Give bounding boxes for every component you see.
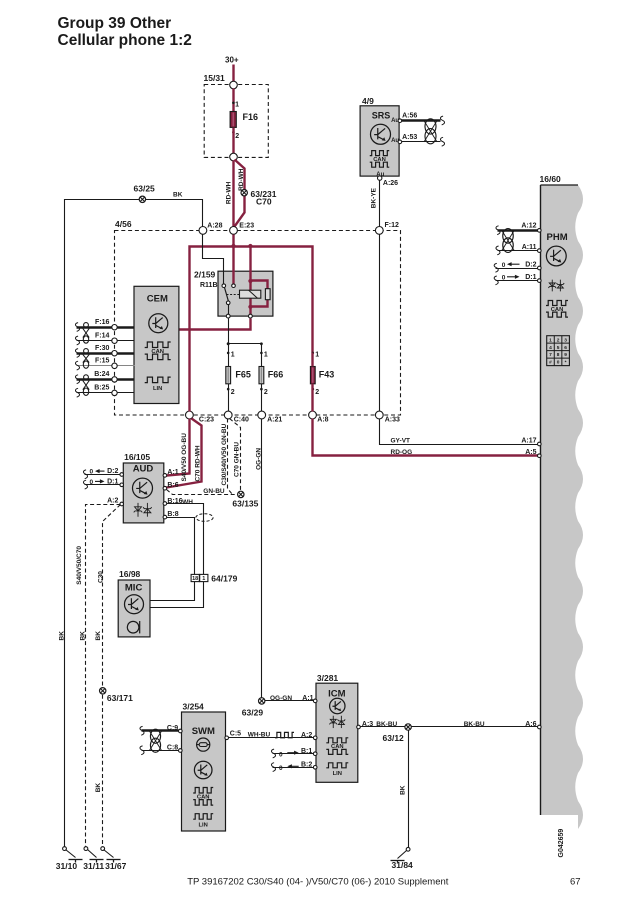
svg-text:A:33: A:33 — [385, 416, 400, 423]
pin C:9 of SWM — [179, 729, 183, 733]
svg-text:D:1: D:1 — [525, 274, 536, 281]
svg-text:A:17: A:17 — [521, 438, 536, 445]
svg-text:C70 GN-BU: C70 GN-BU — [233, 442, 240, 477]
PHM keypad — [547, 336, 570, 366]
wire WH-BU — [229, 737, 315, 739]
splice 63/171 — [100, 688, 106, 694]
pin 2 of F16 — [232, 131, 235, 134]
wire RD-WH right branch — [235, 160, 245, 227]
pin B:1 of ICM — [313, 752, 317, 756]
svg-text:1: 1 — [235, 101, 239, 108]
pin A:6 of PHM — [538, 725, 542, 729]
svg-text:BK: BK — [399, 785, 406, 795]
svg-text:Cellular phone 1:2: Cellular phone 1:2 — [58, 32, 192, 49]
module MIC box — [118, 580, 150, 637]
svg-text:A:11: A:11 — [522, 244, 537, 251]
relay dashed link — [227, 294, 240, 296]
wire relay to fuse junction — [228, 319, 230, 344]
svg-text:A:56: A:56 — [402, 113, 417, 120]
wire A:53 — [402, 141, 441, 143]
svg-text:1: 1 — [231, 352, 235, 359]
svg-text:A:21: A:21 — [267, 416, 282, 423]
wire RD-WH left branch — [232, 161, 234, 227]
wire BK horizontal — [65, 200, 203, 847]
wire D:1 of PHM — [496, 280, 538, 282]
wire BK-BU — [361, 726, 538, 728]
svg-text:BK: BK — [95, 783, 102, 793]
svg-text:0: 0 — [502, 275, 506, 282]
pin 1 of F43 — [312, 352, 315, 355]
wire C:8 — [142, 750, 179, 752]
module AUD box — [123, 463, 164, 523]
node bottom of 15/31 — [230, 153, 238, 161]
wire maroon bus — [190, 247, 313, 412]
wire B:2 — [273, 767, 314, 769]
wire to F65 — [228, 344, 230, 367]
MIC microphone symbol — [127, 621, 139, 633]
svg-text:63/12: 63/12 — [383, 733, 405, 743]
node A:21 — [258, 411, 266, 419]
AUD D:1 wire — [85, 484, 121, 486]
fuse F65 — [226, 367, 231, 384]
wire A:2 to 31/11 — [86, 505, 121, 847]
svg-text:A:2: A:2 — [107, 498, 118, 505]
svg-text:2/159: 2/159 — [194, 270, 216, 280]
svg-text:9: 9 — [564, 352, 567, 358]
wire relay coil to CEM — [179, 319, 251, 330]
svg-text:BK-BU: BK-BU — [376, 721, 397, 728]
CEM LIN symbol — [145, 377, 171, 383]
svg-text:RD-WH: RD-WH — [225, 181, 232, 204]
twisted pair SWM — [149, 731, 161, 751]
svg-text:0: 0 — [557, 360, 560, 366]
svg-text:SRS: SRS — [372, 111, 391, 121]
ground 31/84 — [406, 847, 410, 851]
ICM CAN symbol — [326, 738, 348, 743]
relay switch arm — [225, 288, 229, 302]
relay maroon through-wire — [249, 272, 251, 317]
pin D:1 of PHM — [538, 279, 542, 283]
svg-text:B:6: B:6 — [167, 482, 178, 489]
svg-text:C:40: C:40 — [234, 416, 249, 423]
pin A:1 of AUD — [163, 474, 167, 478]
twisted pair SRS — [424, 121, 437, 142]
svg-text:2: 2 — [264, 389, 268, 396]
svg-text:ICM: ICM — [328, 688, 346, 699]
svg-text:LIN: LIN — [333, 771, 342, 777]
svg-text:0: 0 — [90, 469, 94, 476]
splice 63/12 — [405, 724, 411, 730]
pin A:53 of SRS — [398, 140, 402, 144]
relay coil resistor — [265, 289, 270, 300]
twisted pair PHM — [502, 230, 515, 250]
relay pin — [232, 284, 236, 288]
wire A:2 to 31/67 — [103, 505, 121, 847]
wire E:23 to relay — [232, 235, 234, 284]
svg-text:A:28: A:28 — [207, 222, 222, 229]
svg-text:C70: C70 — [256, 196, 272, 206]
svg-text:F:12: F:12 — [385, 222, 400, 229]
svg-text:2: 2 — [557, 337, 560, 343]
CEM CAN symbol — [145, 342, 171, 348]
pin B:8 of AUD — [163, 515, 167, 519]
pin A:2 of AUD — [120, 502, 124, 506]
ICM diode symbol — [329, 716, 345, 728]
svg-text:0: 0 — [502, 262, 506, 269]
ground 31/10 — [63, 847, 67, 851]
PHM diode symbol — [548, 280, 564, 292]
pin 2 of F66 — [260, 388, 263, 391]
pin 1 of F16 — [232, 102, 235, 105]
svg-text:TP 39167202 C30/S40 (04- )/V50: TP 39167202 C30/S40 (04- )/V50/C70 (06-)… — [187, 877, 449, 888]
svg-text:BK: BK — [80, 631, 87, 641]
ground 31/67 — [101, 847, 105, 851]
svg-text:F43: F43 — [319, 370, 335, 380]
wire D:2 of PHM — [496, 268, 538, 270]
svg-text:*: * — [565, 360, 567, 366]
PHM transistor symbol — [546, 246, 566, 266]
CEM transistor symbol — [149, 314, 168, 333]
svg-text:C70 RD-WH: C70 RD-WH — [194, 445, 201, 481]
svg-text:SWM: SWM — [192, 726, 215, 737]
svg-text:C:23: C:23 — [199, 416, 214, 423]
svg-text:7: 7 — [549, 352, 552, 358]
svg-text:#: # — [549, 360, 552, 366]
pin B:6 of AUD — [163, 486, 167, 490]
svg-text:B:25: B:25 — [94, 385, 109, 392]
node top of 15/31 — [230, 81, 238, 89]
module ICM box — [316, 683, 358, 782]
node E:23 — [230, 227, 238, 235]
pin 1 of F66 — [260, 352, 263, 355]
pin A:2 of ICM — [313, 736, 317, 740]
svg-text:GN-BU: GN-BU — [203, 488, 225, 495]
svg-text:S40/V50 OG-BU: S40/V50 OG-BU — [181, 433, 188, 482]
svg-text:PHM: PHM — [547, 232, 568, 243]
pin D:2 of AUD — [120, 473, 124, 477]
pin A:11 of PHM — [538, 249, 542, 253]
pin 2 of F43 — [312, 388, 315, 391]
svg-text:A:53: A:53 — [402, 134, 417, 141]
pin A:12 of PHM — [538, 229, 542, 233]
svg-text:B:16: B:16 — [167, 498, 182, 505]
twisted pair B:24/B:25 — [84, 375, 89, 380]
svg-text:3/281: 3/281 — [317, 673, 339, 683]
pin C:8 of SWM — [179, 749, 183, 753]
wire BK to 31/84 — [408, 731, 410, 848]
relay pin bottom switch — [226, 314, 230, 318]
svg-text:3: 3 — [564, 337, 567, 343]
relay switch out — [228, 305, 230, 315]
svg-text:RD-OG: RD-OG — [391, 449, 413, 456]
svg-text:16/60: 16/60 — [540, 174, 562, 184]
svg-text:4/9: 4/9 — [362, 96, 374, 106]
svg-text:31/67: 31/67 — [105, 861, 127, 871]
svg-text:18: 18 — [192, 576, 198, 582]
svg-text:2: 2 — [315, 389, 319, 396]
svg-text:CEM: CEM — [147, 294, 168, 305]
wire to F66 — [261, 353, 263, 367]
pin A:1 of ICM — [313, 699, 317, 703]
pin A:26 of SRS — [378, 176, 382, 180]
svg-text:R11B: R11B — [200, 282, 218, 289]
svg-text:16/98: 16/98 — [119, 569, 141, 579]
svg-text:A:8: A:8 — [317, 416, 328, 423]
wire GN-BU left branch — [228, 419, 233, 495]
svg-text:C30: C30 — [97, 571, 104, 583]
svg-text:67: 67 — [570, 877, 581, 888]
svg-text:C:5: C:5 — [230, 731, 241, 738]
SWM CAN symbol — [193, 788, 213, 794]
SRS CAN symbol — [370, 151, 390, 156]
twisted pair F:16/F:14 — [84, 323, 89, 328]
twisted pair F:30/F:15 — [84, 349, 89, 354]
node A:8 — [309, 411, 317, 419]
wire OG-GN — [262, 419, 315, 701]
wire 30+ feed — [232, 65, 234, 82]
pin D:1 of AUD — [120, 483, 124, 487]
ground 31/11 — [84, 847, 88, 851]
wire B:1 — [273, 753, 314, 755]
module SWM box — [182, 712, 226, 831]
svg-text:B:8: B:8 — [167, 511, 178, 518]
svg-text:D:2: D:2 — [525, 261, 536, 268]
wire A:11 — [498, 250, 538, 252]
wire B:16 — [167, 504, 204, 575]
wire RD-OG — [313, 419, 538, 456]
svg-text:F16: F16 — [243, 112, 259, 122]
svg-text:2: 2 — [231, 389, 235, 396]
pin A:5 of PHM — [538, 454, 542, 458]
shield ellipse — [196, 514, 213, 522]
junction — [260, 342, 263, 345]
svg-text:A:26: A:26 — [383, 180, 398, 187]
svg-text:BK: BK — [95, 631, 102, 641]
svg-text:15/31: 15/31 — [204, 73, 226, 83]
svg-text:LIN: LIN — [153, 386, 162, 392]
svg-text:OG-GN: OG-GN — [270, 695, 292, 702]
wire F43 to A:8 — [311, 384, 313, 412]
svg-text:4/56: 4/56 — [115, 219, 132, 229]
ICM transistor symbol — [330, 698, 345, 713]
svg-text:F65: F65 — [235, 370, 251, 380]
module CEM box — [134, 286, 179, 403]
wire BK-YE — [379, 181, 381, 227]
wire A:28 to relay switch — [203, 235, 224, 284]
fuse F66 — [259, 367, 264, 384]
wire F66 to A:21 — [261, 384, 263, 412]
node C:23 — [186, 411, 194, 419]
pin 1 of F65 — [227, 352, 230, 355]
svg-text:WH-BU: WH-BU — [248, 732, 271, 739]
wire GN-BU from B:6 — [167, 490, 238, 495]
node A:28 — [199, 227, 207, 235]
AUD diode symbol — [134, 503, 152, 517]
relay 2/159 body — [218, 271, 273, 316]
MIC transistor symbol — [125, 595, 144, 614]
AUD transistor symbol — [133, 478, 153, 498]
svg-text:16/105: 16/105 — [124, 452, 150, 462]
svg-text:1: 1 — [264, 352, 268, 359]
SWM steering wheel symbol — [197, 738, 210, 751]
svg-text:A:12: A:12 — [521, 222, 536, 229]
svg-text:BK-YE: BK-YE — [370, 187, 377, 208]
SWM LIN symbol — [193, 814, 213, 820]
fusebox 15/31 — [204, 85, 268, 158]
svg-text:F66: F66 — [268, 370, 284, 380]
svg-text:A:2: A:2 — [301, 732, 312, 739]
svg-text:WH: WH — [182, 499, 193, 506]
relay coil loop — [251, 281, 268, 289]
svg-text:G042659: G042659 — [558, 829, 565, 858]
node C:40 — [224, 411, 232, 419]
svg-text:S40/V50/C70: S40/V50/C70 — [76, 546, 83, 585]
pin A:17 of PHM — [538, 442, 542, 446]
svg-text:31/11: 31/11 — [83, 861, 104, 871]
junction — [248, 244, 252, 248]
svg-text:1: 1 — [315, 352, 319, 359]
module SRS box — [360, 106, 399, 176]
svg-text:63/25: 63/25 — [134, 183, 156, 193]
fuse F43 — [310, 367, 315, 384]
svg-text:3/254: 3/254 — [183, 701, 205, 711]
WH-BU square wave — [275, 732, 294, 737]
AUD D:2 wire — [85, 474, 121, 476]
svg-text:RD-WH: RD-WH — [238, 168, 245, 191]
wire F43 top — [311, 353, 313, 367]
junction — [227, 342, 230, 345]
svg-text:A:1: A:1 — [302, 695, 313, 702]
connector box 4/56 — [115, 231, 401, 416]
wire GN-BU right branch — [230, 419, 241, 491]
svg-text:63/29: 63/29 — [242, 707, 264, 717]
wire C:9 — [142, 729, 179, 731]
svg-text:A:5: A:5 — [525, 449, 536, 456]
wire junction to F66 — [229, 344, 262, 353]
splice 63/231 — [241, 190, 247, 196]
node F:12 — [375, 227, 383, 235]
svg-text:30+: 30+ — [225, 56, 239, 65]
wire B:8 — [167, 518, 195, 575]
svg-text:64/179: 64/179 — [211, 573, 237, 583]
svg-text:31/84: 31/84 — [392, 860, 414, 870]
pin 2 of F65 — [227, 388, 230, 391]
SWM transistor symbol — [194, 761, 212, 779]
splice 63/29 — [259, 698, 265, 704]
svg-text:A:1: A:1 — [167, 469, 178, 476]
svg-text:GY-VT: GY-VT — [391, 438, 411, 445]
svg-text:LIN: LIN — [199, 822, 208, 828]
ICM LIN symbol — [326, 763, 348, 768]
relay pin bottom coil — [249, 314, 253, 318]
svg-text:63/135: 63/135 — [232, 499, 258, 509]
svg-text:4: 4 — [549, 345, 552, 351]
module PHM column — [541, 185, 584, 829]
node A:33 — [375, 411, 383, 419]
wire RD-WH to B:6 — [167, 419, 202, 488]
splice 63/135 — [238, 491, 244, 497]
svg-text:Group 39 Other: Group 39 Other — [58, 15, 172, 32]
svg-text:E:23: E:23 — [239, 222, 254, 229]
svg-text:AUD: AUD — [133, 464, 154, 475]
pin A:56 of SRS — [398, 119, 402, 123]
svg-text:2: 2 — [235, 133, 239, 140]
svg-text:B:24: B:24 — [94, 371, 109, 378]
wire fuse feed — [232, 89, 234, 112]
wire A:12 — [498, 229, 538, 231]
pin B:16 of AUD — [163, 502, 167, 506]
pin C:5 of SWM — [225, 736, 229, 740]
wire bus to relay coil — [249, 247, 251, 272]
svg-text:F:16: F:16 — [95, 319, 110, 326]
wire GY-VT — [380, 419, 538, 445]
wire fuse out — [232, 128, 234, 154]
svg-text:C30/S40/V50 GN-BU: C30/S40/V50 GN-BU — [221, 423, 228, 485]
wire A:56 — [402, 119, 441, 121]
svg-text:1: 1 — [549, 337, 552, 343]
junction — [231, 244, 235, 248]
svg-text:0: 0 — [90, 479, 94, 486]
svg-text:63/171: 63/171 — [107, 693, 133, 703]
pin A:3 of ICM — [357, 725, 361, 729]
pin B:2 of ICM — [313, 766, 317, 770]
relay coil — [240, 290, 261, 298]
svg-text:5: 5 — [557, 345, 560, 351]
wire F65 to C:40 — [228, 384, 230, 412]
SRS transistor symbol — [371, 124, 391, 144]
svg-text:BK: BK — [58, 631, 65, 641]
pin D:2 of PHM — [538, 266, 542, 270]
splice 63/25 — [139, 196, 145, 202]
svg-text:F:14: F:14 — [95, 333, 110, 340]
relay pin — [222, 284, 226, 288]
connector 64/179 — [191, 574, 199, 581]
wire 18 to MIC — [151, 582, 195, 601]
svg-text:MIC: MIC — [125, 583, 143, 594]
svg-text:8: 8 — [557, 352, 560, 358]
fuse F16 — [230, 112, 236, 128]
relay pin — [226, 301, 230, 305]
wire F:12 to A:33 — [379, 235, 381, 412]
svg-text:31/10: 31/10 — [56, 861, 78, 871]
svg-text:0: 0 — [279, 765, 283, 772]
svg-text:F:15: F:15 — [95, 358, 110, 365]
svg-text:F:30: F:30 — [95, 345, 110, 352]
svg-text:BK-BU: BK-BU — [464, 721, 485, 728]
svg-text:6: 6 — [564, 345, 567, 351]
svg-text:0: 0 — [279, 751, 283, 758]
svg-text:OG-GN: OG-GN — [255, 448, 262, 470]
PHM CAN symbol — [546, 301, 568, 306]
svg-text:BK: BK — [173, 192, 183, 199]
svg-text:A:6: A:6 — [525, 721, 536, 728]
svg-text:1: 1 — [202, 576, 205, 582]
wire 1 to MIC — [151, 582, 204, 608]
wire OG-BU to A:1 — [167, 419, 190, 476]
